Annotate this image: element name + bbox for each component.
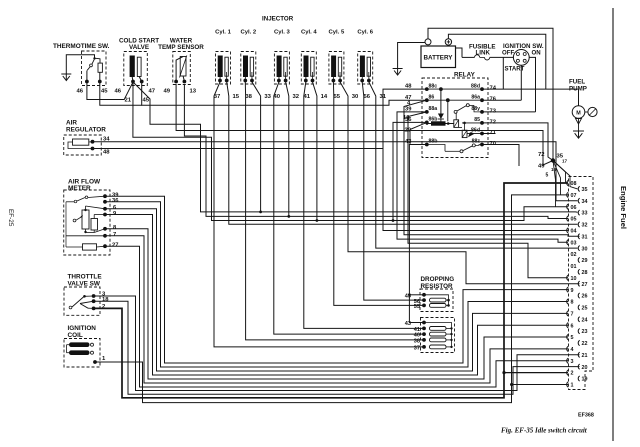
svg-text:86: 86	[429, 94, 435, 100]
wire 55 Cyl5 to dropping resistor	[334, 100, 424, 305]
air flow meter	[64, 179, 119, 256]
relay wire 88b bottom	[427, 144, 445, 146]
ECU inner pin 7	[567, 311, 574, 318]
svg-text:18: 18	[102, 297, 109, 303]
wire fusible link to ignition switch	[490, 56, 514, 58]
svg-text:86a: 86a	[471, 94, 480, 100]
page edge rule	[612, 8, 614, 441]
svg-text:RELAY: RELAY	[454, 72, 476, 79]
svg-text:08: 08	[571, 181, 577, 187]
svg-text:29: 29	[582, 258, 588, 264]
svg-text:Engine Fuel: Engine Fuel	[619, 186, 628, 229]
svg-text:30: 30	[582, 246, 588, 252]
wire 34 air regulator to pin 34	[93, 142, 578, 201]
ground symbol (fuel pump)	[573, 131, 584, 138]
ECU inner pin 8	[567, 299, 574, 306]
relay diode	[438, 87, 444, 123]
svg-text:07: 07	[571, 193, 577, 199]
wire 43 relay 88b to dropping resistors	[408, 145, 427, 323]
wire AFM 8 to bus	[105, 229, 568, 379]
label 33 (Cyl. 2 right pin)	[264, 94, 271, 100]
wire ignition sw OFF terminal down	[502, 57, 504, 89]
svg-text:METER: METER	[68, 185, 91, 192]
label 45 (wire)	[143, 98, 150, 104]
label 40 (dropping resistor)	[414, 333, 420, 339]
relay pin 86 (wire 47)	[405, 94, 434, 102]
label 30 (Cyl. 5 right pin)	[352, 94, 359, 100]
label FUEL PUMP	[569, 79, 587, 93]
svg-text:38: 38	[245, 94, 252, 100]
svg-text:06: 06	[571, 205, 577, 211]
wire Cyl. 4 left pin drop	[304, 82, 306, 100]
wire relay 36 branch	[392, 122, 427, 222]
svg-text:47: 47	[149, 89, 156, 95]
label 38 (Cyl. 2 left pin)	[245, 94, 252, 100]
wire junction fan a	[553, 161, 566, 184]
svg-text:EF368: EF368	[578, 413, 594, 419]
relay wire 86 branch	[427, 98, 482, 121]
svg-text:Cyl. 3: Cyl. 3	[274, 30, 290, 36]
svg-text:5: 5	[571, 335, 574, 341]
svg-text:36: 36	[112, 198, 119, 204]
label 14 (Cyl. 4 right pin)	[321, 94, 328, 100]
relay pin 88b (wire 43)	[405, 139, 437, 147]
wire ignition sw START terminal down	[520, 65, 522, 100]
relay wire 88c row	[427, 88, 482, 90]
wire relay 74 to ignition feed and fuel pump	[482, 88, 579, 90]
wire Cyl. 5 left pin drop	[332, 82, 334, 100]
svg-text:76: 76	[490, 97, 497, 103]
relay pin 88a (wire 39)	[405, 106, 437, 114]
svg-text:31: 31	[582, 234, 588, 240]
svg-text:74: 74	[490, 86, 497, 92]
wire relay 73 to ignition ON	[482, 111, 536, 113]
label 18 (throttle pin)	[102, 297, 109, 303]
wire 72 relay to junction	[482, 123, 553, 161]
wire Cyl. 2 left pin drop	[244, 82, 246, 100]
svg-text:8: 8	[571, 300, 574, 306]
throttle valve switch	[64, 273, 102, 315]
wire ignition sw ON terminal down	[529, 57, 535, 112]
svg-text:20: 20	[582, 365, 588, 371]
cold start valve	[119, 38, 159, 86]
svg-text:6: 6	[571, 323, 574, 329]
svg-text:46: 46	[115, 89, 122, 95]
svg-text:25: 25	[582, 306, 588, 312]
ECU inner pin 9	[567, 287, 574, 294]
svg-text:03: 03	[571, 240, 577, 246]
label 31 (Cyl. 6 right pin)	[380, 94, 387, 100]
relay pin 88y (wire 73)	[471, 106, 496, 114]
wire battery minus top rail	[428, 28, 553, 158]
svg-text:PUMP: PUMP	[569, 86, 587, 93]
ECU inner pin 07	[567, 192, 577, 199]
svg-text:5: 5	[546, 173, 549, 179]
svg-text:88d: 88d	[471, 83, 480, 89]
injector Cyl. 1	[215, 30, 231, 85]
label 17 (junction wire)	[562, 159, 568, 164]
ECU outer pin 24	[578, 317, 587, 324]
node junction 72/49	[551, 158, 555, 162]
ECU inner pin 03	[567, 240, 577, 247]
label 13 (water temp pin)	[190, 89, 197, 95]
svg-text:INJECTOR: INJECTOR	[262, 16, 294, 23]
label 21 (wire)	[125, 98, 132, 104]
ECU inner pin 06	[567, 204, 577, 211]
injector Cyl. 3	[274, 30, 290, 85]
svg-text:45: 45	[101, 89, 108, 95]
ECU outer pin 25	[578, 305, 587, 312]
wire outer pin 31 join	[568, 235, 576, 237]
ECU outer pin 26	[578, 293, 587, 300]
relay coil 1	[446, 113, 463, 128]
wire throttle 2 to pin 08 (thick)	[94, 183, 568, 398]
dropping resistor lower	[421, 318, 455, 353]
wire relay 39 to pin 03	[397, 112, 568, 242]
svg-text:TEMP SENSOR: TEMP SENSOR	[158, 44, 204, 51]
ECU outer pin 30	[578, 246, 587, 253]
wire throttle 3 to bus	[94, 296, 580, 391]
svg-text:32: 32	[582, 223, 588, 229]
svg-text:26: 26	[582, 294, 588, 300]
label 56 (Cyl. 6 left pin)	[364, 94, 371, 100]
svg-text:Cyl. 1: Cyl. 1	[215, 30, 231, 36]
svg-text:56: 56	[364, 94, 371, 100]
svg-text:28: 28	[582, 270, 588, 276]
wire branch to pin 2	[502, 371, 568, 374]
svg-text:46: 46	[77, 89, 84, 95]
wire 45 cold start drop	[133, 82, 578, 212]
wire Cyl. 6 right pin drop	[369, 82, 376, 100]
wire relay 48 to pin 04	[383, 89, 568, 230]
svg-text:05: 05	[571, 217, 577, 223]
label 43 (dropping resistor)	[405, 293, 411, 299]
svg-text:88c: 88c	[429, 83, 438, 89]
wire Cyl. 5 right pin drop	[340, 82, 348, 100]
ECU outer pin 20	[578, 364, 587, 371]
relay coil 2 (86d)	[462, 130, 482, 137]
ECU inner pin 05	[567, 216, 577, 223]
svg-text:22: 22	[582, 341, 588, 347]
wire Cyl. 6 left pin drop	[362, 82, 364, 100]
fuel pump motor	[572, 106, 597, 119]
svg-text:Fig. EF-35 Idle switch circui: Fig. EF-35 Idle switch circuit	[501, 427, 588, 435]
svg-text:04: 04	[571, 229, 577, 235]
wire Cyl. 4 right pin drop	[313, 82, 317, 100]
relay contact 88z-70	[427, 144, 482, 153]
svg-text:4: 4	[571, 347, 574, 353]
injector Cyl. 5	[329, 30, 345, 85]
injector Cyl. 6	[357, 30, 373, 85]
ignition coil	[64, 325, 100, 367]
ECU outer pin 27	[578, 281, 587, 288]
wire AFM 27 to bus	[105, 246, 568, 387]
svg-text:THROTTLE: THROTTLE	[68, 273, 103, 280]
wire throttle 18 to pin 20	[94, 301, 580, 394]
wire 56 Cyl6 to dropping resistor	[364, 100, 424, 300]
wire relay 76 to ignition START	[482, 99, 521, 101]
ECU inner pin 4	[567, 346, 574, 353]
wire junction fan b	[553, 161, 561, 195]
svg-text:OFF: OFF	[502, 50, 514, 57]
relay wire 85-72 row	[462, 122, 482, 131]
wire 45 thermotime to cold start 47	[100, 82, 142, 106]
svg-text:02: 02	[571, 252, 577, 258]
ECU outer pin 34	[578, 198, 587, 205]
svg-text:27: 27	[112, 243, 118, 249]
wire 47 cold start to relay 47	[142, 82, 427, 106]
ECU outer pin 28	[578, 269, 587, 276]
label 5 (junction wire)	[546, 173, 549, 179]
ECU outer pin 35	[578, 186, 587, 193]
wire junction fan c	[553, 161, 556, 207]
ECU inner pin 5	[567, 334, 574, 341]
svg-text:VALVE: VALVE	[129, 44, 149, 51]
label 15 (Cyl. 1 right pin)	[233, 94, 240, 100]
ground symbol (thermotime)	[61, 74, 71, 81]
svg-text:FUEL: FUEL	[569, 79, 585, 86]
svg-text:17: 17	[562, 159, 568, 164]
wire coil 1 to pin 07 (long)	[95, 195, 568, 403]
wire 13 water temp to pin 05	[184, 84, 568, 219]
svg-text:48: 48	[103, 150, 110, 156]
relay pin 86a (wire 76)	[471, 94, 496, 102]
wire relay 71 stub	[482, 133, 495, 135]
injector Cyl. 4	[301, 30, 317, 85]
ECU outer pin 23	[578, 329, 587, 336]
svg-text:21: 21	[582, 353, 588, 359]
dropping resistor upper	[420, 276, 454, 312]
label 16 (junction wire)	[551, 167, 557, 172]
ECU inner pin 01	[571, 264, 577, 270]
ECU outer pin 21	[578, 352, 587, 359]
svg-text:1: 1	[571, 383, 574, 389]
ECU inner pin 10	[567, 275, 577, 282]
svg-text:73: 73	[490, 108, 497, 114]
wire relay 4 to pin 31	[404, 100, 580, 236]
svg-text:LINK: LINK	[476, 50, 491, 57]
fuel pump check valve triangle	[576, 118, 582, 131]
wire 41 Cyl4 to dropping resistor	[304, 100, 424, 328]
wire 37 Cyl1 to dropping resistor	[214, 100, 424, 347]
wire fusible link feed	[456, 48, 463, 57]
wire AFM 7 to bus	[105, 236, 568, 383]
label EF-25 (left edge)	[7, 209, 14, 227]
ignition switch	[502, 43, 544, 73]
svg-text:15: 15	[233, 94, 240, 100]
relay pin 86b (wire 36)	[405, 117, 437, 125]
wire outer pin 33 stub	[576, 212, 578, 214]
label 34 (air regulator pin)	[103, 137, 110, 143]
label 10 (relay wire)	[403, 115, 410, 121]
ECU inner pin 08	[567, 180, 577, 187]
svg-text:41: 41	[304, 94, 311, 100]
wire junction to pin 35	[553, 161, 578, 189]
wire 33 Cyl2 right to band	[259, 100, 262, 213]
svg-text:7: 7	[113, 232, 116, 238]
wire battery minus to ground	[398, 43, 425, 69]
ECU inner pin 04	[567, 228, 577, 235]
thermotime ground wire	[66, 55, 94, 74]
wire fuel pump feed	[578, 89, 580, 106]
wire Cyl. 2 right pin drop	[252, 82, 261, 100]
label INJECTOR	[262, 16, 294, 23]
label 56 (dropping resistor)	[414, 299, 420, 305]
thermotime switch	[53, 43, 110, 86]
svg-text:45: 45	[143, 98, 150, 104]
ECU outer pin 29	[578, 257, 587, 264]
label 1 (ignition coil pin)	[102, 356, 106, 362]
svg-text:14: 14	[321, 94, 328, 100]
label 55 (Cyl. 5 left pin)	[334, 94, 341, 100]
label 37 (Cyl. 1 left pin)	[214, 94, 221, 100]
ECU outer pin 32	[578, 222, 587, 229]
label 35 (junction wire)	[557, 154, 564, 160]
label 4 (relay wire)	[407, 101, 411, 107]
wire relay 70 stub	[482, 145, 519, 167]
svg-text:13: 13	[190, 89, 197, 95]
svg-text:33: 33	[264, 94, 271, 100]
label 37 (dropping resistor)	[414, 346, 420, 352]
ECU inner pin 2	[567, 370, 574, 377]
svg-text:27: 27	[582, 282, 588, 288]
wire 31 Cyl6 right to pin 30	[376, 100, 578, 248]
label 3 (throttle pin)	[102, 292, 106, 298]
ECU inner pin 3	[567, 358, 574, 365]
svg-text:9: 9	[113, 211, 117, 217]
injector Cyl. 2	[240, 30, 256, 85]
label 38 (dropping resistor)	[414, 339, 420, 345]
relay box	[422, 72, 488, 158]
wire 46 thermotime to cold start	[87, 82, 133, 100]
wire Cyl. 1 right pin drop	[227, 82, 229, 100]
ECU outer pin 33	[578, 210, 587, 217]
ECU inner pin 02	[571, 252, 577, 258]
svg-text:VALVE SW: VALVE SW	[68, 280, 101, 287]
svg-text:24: 24	[582, 317, 588, 323]
svg-text:49: 49	[164, 89, 171, 95]
wire Cyl. 1 left pin drop	[214, 82, 220, 100]
svg-text:30: 30	[352, 94, 359, 100]
label 41 (Cyl. 4 left pin)	[304, 94, 311, 100]
ECU connector box	[569, 177, 594, 390]
svg-text:21: 21	[125, 98, 132, 104]
relay pin 86d (wire 71)	[471, 128, 497, 136]
svg-text:THERMOTIME SW.: THERMOTIME SW.	[53, 43, 110, 50]
wire 30 Cyl5 right to pin 27	[348, 100, 580, 284]
wire 15 Cyl1 right to pin 32	[229, 100, 578, 224]
svg-text:3: 3	[571, 359, 574, 365]
wire 38 Cyl2 to dropping resistor	[246, 100, 424, 340]
label 49 (water temp pin)	[164, 89, 171, 95]
relay resistor	[426, 121, 446, 125]
svg-text:Cyl. 4: Cyl. 4	[301, 30, 317, 36]
svg-text:88y: 88y	[471, 106, 480, 112]
svg-text:23: 23	[582, 329, 588, 335]
svg-text:M: M	[576, 110, 581, 116]
svg-text:72: 72	[490, 119, 496, 125]
label 47 (cold start pin)	[149, 89, 156, 95]
relay pin 88d (wire 74)	[471, 83, 497, 91]
ECU inner pin 1	[567, 382, 574, 389]
svg-text:10: 10	[571, 276, 577, 282]
label 49 (junction wire)	[538, 164, 545, 170]
svg-text:72: 72	[538, 152, 545, 158]
label 43 (dropping resistor lower)	[405, 321, 411, 327]
svg-text:1: 1	[102, 356, 106, 362]
label 45 (thermotime pin)	[101, 89, 108, 95]
wire relay 10 to pin 10	[408, 112, 568, 278]
wire battery plus rail	[448, 34, 545, 89]
wire AFM 9 to bus	[105, 215, 568, 376]
ECU outer pin 31	[578, 234, 587, 241]
label 40 (Cyl. 3 left pin)	[274, 94, 281, 100]
fusible link	[462, 44, 495, 61]
svg-text:2: 2	[571, 371, 574, 377]
wire relay 20 branch	[410, 122, 427, 144]
svg-text:Cyl. 6: Cyl. 6	[357, 30, 373, 36]
battery	[421, 39, 456, 68]
label 2 (throttle pin)	[102, 304, 106, 310]
wire AFM 6 to bus	[105, 209, 568, 371]
svg-text:35: 35	[582, 187, 588, 193]
ECU outer pin 19	[578, 376, 587, 383]
svg-text:19: 19	[582, 377, 588, 383]
svg-text:Cyl. 2: Cyl. 2	[240, 30, 256, 36]
svg-text:COIL: COIL	[68, 332, 83, 339]
relay contact 88y-73	[454, 104, 482, 114]
wire Cyl. 3 left pin drop	[274, 82, 279, 100]
label 72 (junction wire)	[538, 152, 545, 158]
wire 21 cold start drop	[133, 82, 568, 221]
svg-text:7: 7	[571, 311, 574, 317]
svg-text:85: 85	[474, 117, 480, 123]
label 20 (relay wire)	[405, 128, 412, 134]
label 41 (dropping resistor)	[414, 327, 420, 333]
ECU outer pin 22	[578, 340, 587, 347]
wire branch to pin 1	[510, 383, 568, 386]
wire 40 Cyl3 to dropping resistor	[274, 100, 424, 334]
svg-text:IGNITION: IGNITION	[68, 325, 97, 332]
air regulator	[64, 120, 107, 156]
wire 49 water temp to junction	[176, 84, 553, 165]
relay pin 85 (wire 72)	[474, 117, 496, 125]
svg-text:8: 8	[113, 225, 117, 231]
water temp sensor	[158, 38, 204, 85]
svg-text:BATTERY: BATTERY	[423, 55, 453, 62]
wire 32 Cyl3 right to band	[287, 100, 290, 218]
svg-text:REGULATOR: REGULATOR	[66, 126, 106, 133]
label Engine Fuel (edge tab)	[619, 186, 628, 229]
label 32 (Cyl. 3 right pin)	[293, 94, 300, 100]
wire AFM 36 to bus	[105, 202, 568, 367]
relay pin 88z (wire 70)	[472, 139, 496, 147]
wire Cyl. 3 right pin drop	[286, 82, 289, 100]
caption Fig. EF-35 Idle switch circuit	[501, 427, 588, 435]
relay pin 88c (wire 48)	[405, 83, 437, 91]
label 46 (cold start pin)	[115, 89, 122, 95]
label 48 (air regulator pin)	[103, 150, 110, 156]
svg-text:ON: ON	[532, 50, 541, 57]
svg-text:33: 33	[582, 211, 588, 217]
svg-text:32: 32	[293, 94, 300, 100]
label 46 (thermotime pin)	[77, 89, 84, 95]
svg-text:01: 01	[571, 264, 577, 270]
svg-text:Cyl. 5: Cyl. 5	[329, 30, 345, 36]
svg-text:34: 34	[582, 199, 588, 205]
wire 48 air regulator to relay 48	[93, 148, 384, 150]
ECU inner pin 6	[567, 323, 574, 330]
